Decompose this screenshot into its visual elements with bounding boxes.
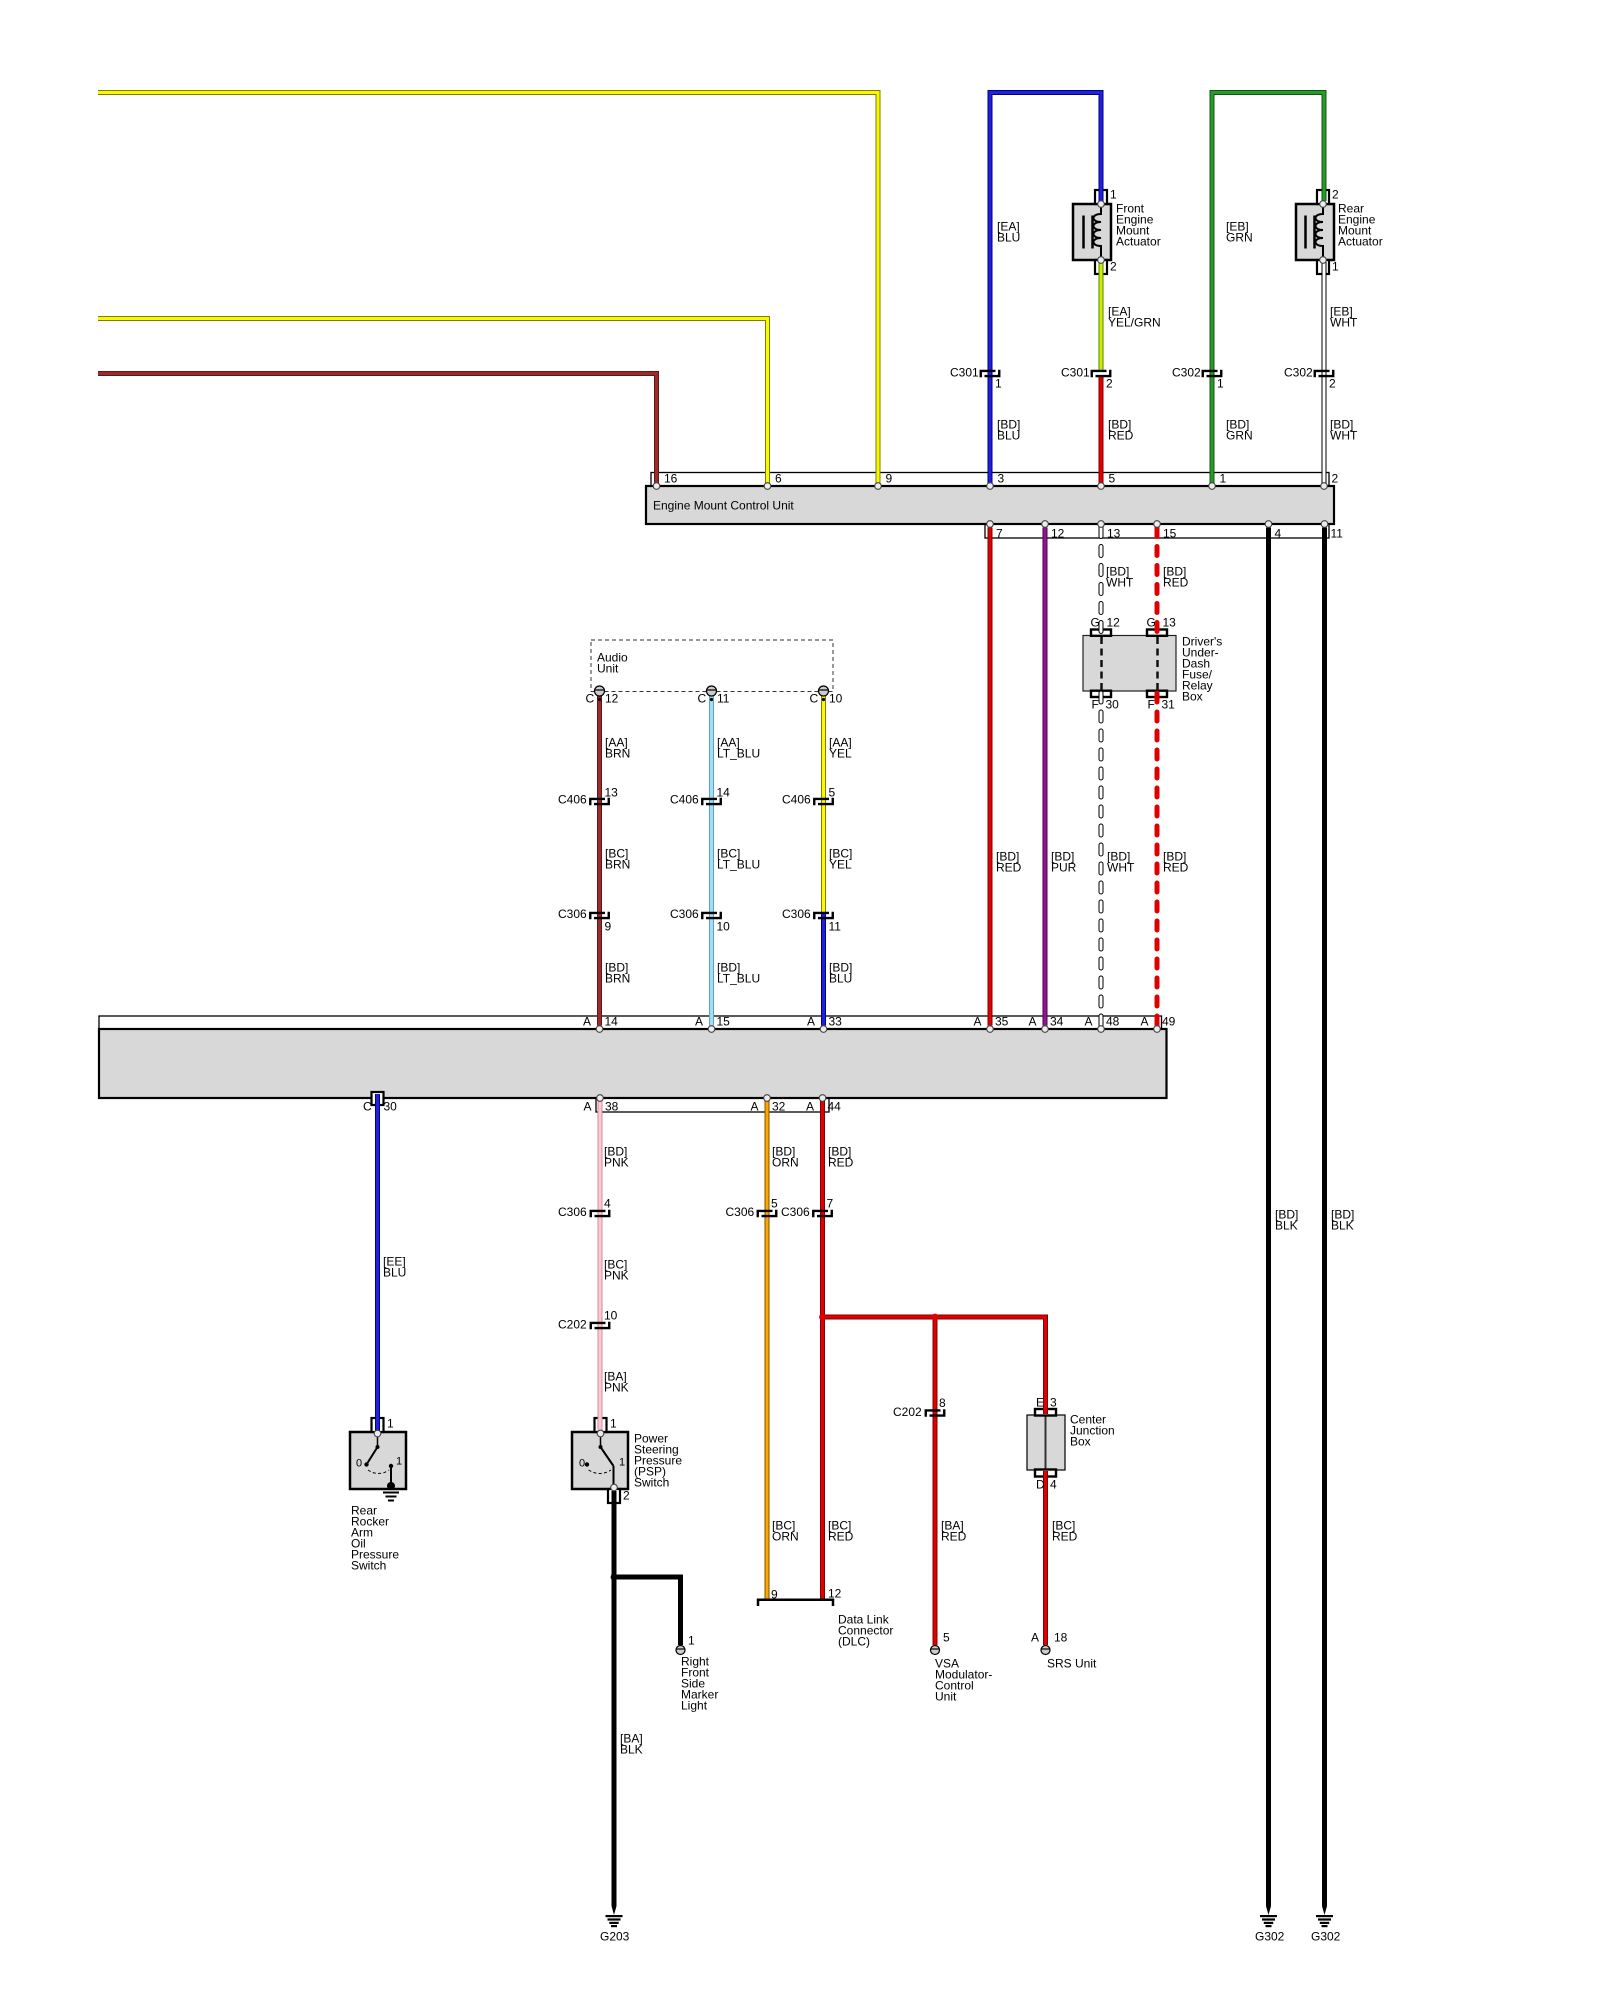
svg-text:Box: Box [1182,690,1203,704]
svg-text:C302: C302 [1172,366,1201,380]
svg-text:10: 10 [829,692,843,706]
front actuator terminal 2 [1095,260,1107,274]
connector C306 pin 9 [590,913,605,919]
connector C306 pin 11 [814,913,829,919]
svg-text:Unit: Unit [597,662,619,676]
rear engine mount actuator box [1296,204,1334,260]
svg-text:A: A [806,1100,814,1114]
wire [BC] RED from D4 to SRS unit [1043,1471,1048,1645]
main control unit box [99,1029,1167,1098]
VSA modulator-control unit terminal 5 [931,1646,940,1655]
svg-text:2: 2 [623,1489,630,1503]
audio unit pin terminal x=823.5 [819,686,829,696]
svg-text:G302: G302 [1311,1930,1341,1944]
wire [EB] WHT / [BD] WHT from rear actuator pin 1 to EMCU pin 2 [1322,262,1327,483]
audio unit pin terminal x=711.5 [707,686,717,696]
svg-text:38: 38 [605,1100,619,1114]
wire [BD] BLU to A33 [821,913,826,1026]
wire [BA] BLK from PSP pin 2 to G203 [612,1491,617,1906]
power steering pressure switch box [572,1432,628,1489]
svg-text:D: D [1036,1478,1045,1492]
svg-text:3: 3 [998,472,1005,486]
svg-text:13: 13 [1163,616,1177,630]
svg-text:0: 0 [356,1458,362,1470]
svg-text:30: 30 [384,1100,398,1114]
svg-text:A: A [751,1100,759,1114]
fuse box terminal F30 [1091,691,1111,697]
svg-text:ORN: ORN [772,1156,799,1170]
svg-text:7: 7 [827,1197,834,1211]
svg-text:E: E [1036,1396,1044,1410]
svg-text:C406: C406 [558,793,587,807]
svg-text:WHT: WHT [1106,576,1134,590]
svg-text:9: 9 [605,920,612,934]
dashed wire [BD] RED from F31 to A49 [1155,693,1160,1026]
front actuator terminal 1 [1095,190,1107,204]
svg-text:13: 13 [605,786,619,800]
svg-text:PNK: PNK [604,1269,629,1283]
svg-text:BLK: BLK [1331,1219,1354,1233]
rear actuator terminal 1 [1317,260,1329,274]
EMCU bottom pin circle x=1268.5 [1265,521,1272,528]
wire [BD]/[BC]/[BA] PNK from A38 to PSP switch [598,1100,603,1431]
svg-text:C306: C306 [726,1205,755,1219]
fuse box terminal G13 [1147,630,1167,636]
dashed wire inside fuse box G12-F30 [1100,637,1103,690]
svg-text:GRN: GRN [1226,231,1253,245]
svg-text:15: 15 [1163,527,1177,541]
junction dot red at A44 branch [819,1314,826,1321]
dashed wire [BD] WHT from F30 to A48 [1099,693,1104,1026]
EMCU top pin circle x=1101 [1098,483,1105,490]
rear actuator top circle [1320,201,1327,208]
svg-text:15: 15 [717,1015,731,1029]
svg-text:BLU: BLU [829,972,852,986]
svg-text:RED: RED [1163,576,1189,590]
svg-text:A: A [584,1100,592,1114]
svg-text:6: 6 [775,472,782,486]
EMCU top pin circle x=1324 [1321,483,1328,490]
svg-text:GRN: GRN [1226,429,1253,443]
svg-text:PNK: PNK [604,1381,629,1395]
svg-text:A: A [695,1015,703,1029]
svg-text:C: C [586,692,595,706]
svg-text:SRS Unit: SRS Unit [1047,1657,1097,1671]
rear actuator coil [1316,204,1324,260]
svg-text:Switch: Switch [634,1476,669,1490]
svg-text:1: 1 [610,1417,617,1431]
EMCU top pin circle x=990 [987,483,994,490]
svg-text:1: 1 [1220,472,1227,486]
audio unit pin terminal x=599.5 [595,686,605,696]
PSP switch lever [599,1445,603,1449]
svg-text:C406: C406 [670,793,699,807]
svg-text:Box: Box [1070,1435,1091,1449]
svg-text:5: 5 [1109,472,1116,486]
SRS unit terminal A18 [1041,1646,1050,1655]
wire yellow to EMCU pin 9 [98,93,878,484]
wire black branch to right front side marker light [614,1577,681,1645]
EMCU top pin circle x=767.5 [764,483,771,490]
svg-text:1: 1 [995,377,1002,391]
front actuator coil [1094,204,1102,260]
wire [EB] GRN / [BD] GRN from EMCU pin 1 to rear actuator pin 2 [1212,93,1324,484]
svg-text:BLU: BLU [383,1266,406,1280]
svg-text:BLK: BLK [620,1743,643,1757]
EMCU bottom pin circle x=1157 [1154,521,1161,528]
engine mount control unit top pin bar [651,473,1329,487]
svg-text:RED: RED [1052,1530,1078,1544]
front actuator top circle [1098,201,1105,208]
svg-text:1: 1 [619,1457,625,1469]
svg-text:12: 12 [1107,616,1121,630]
PSP switch terminal 2 [608,1489,620,1503]
center junction box terminal D4 [1035,1470,1056,1477]
wire [AA]/[BC]/[BD] LT_BLU from audio C11 to A15 [709,695,714,1026]
svg-text:C306: C306 [781,1205,810,1219]
svg-text:YEL/GRN: YEL/GRN [1108,316,1161,330]
svg-text:C202: C202 [893,1405,922,1419]
svg-text:33: 33 [829,1015,843,1029]
svg-text:F: F [1092,698,1099,712]
main unit bottom pin circle x=767 [764,1095,771,1102]
svg-text:PUR: PUR [1051,861,1077,875]
wire [BD]/[BC] ORN from A32 to DLC pin 9 [765,1100,770,1599]
svg-text:32: 32 [772,1100,786,1114]
svg-text:2: 2 [1332,188,1339,202]
svg-text:4: 4 [1050,1478,1057,1492]
svg-text:2: 2 [1329,377,1336,391]
svg-text:5: 5 [943,1631,950,1645]
svg-text:RED: RED [996,861,1022,875]
EMCU top pin circle x=1212 [1209,483,1216,490]
wire [BD] RED from EMCU pin 7 to A35 [988,528,993,1026]
dashed wire [BD] RED from EMCU pin 15 to G13 [1155,528,1160,635]
svg-text:BLU: BLU [997,429,1020,443]
svg-text:LT_BLU: LT_BLU [717,747,760,761]
svg-text:49: 49 [1162,1015,1176,1029]
svg-text:14: 14 [605,1015,619,1029]
svg-text:G: G [1147,616,1156,630]
main unit top pin circle x=990 [987,1026,994,1033]
svg-text:18: 18 [1054,1631,1068,1645]
svg-text:BRN: BRN [605,972,630,986]
svg-text:1: 1 [1217,377,1224,391]
svg-text:BLU: BLU [997,231,1020,245]
svg-text:12: 12 [828,1587,842,1601]
EMCU top pin circle x=656.5 [653,483,660,490]
svg-text:30: 30 [1106,698,1120,712]
svg-text:RED: RED [828,1530,854,1544]
svg-text:44: 44 [828,1100,842,1114]
connector C406 pin 13 [590,799,605,805]
rear actuator core bars [1304,216,1307,249]
wire [BD] BLK from EMCU pin 4 to G302 [1266,528,1271,1907]
svg-text:Switch: Switch [351,1559,386,1573]
PSP switch pin 2 circle [611,1484,618,1491]
svg-text:WHT: WHT [1330,316,1358,330]
svg-text:8: 8 [939,1396,946,1410]
svg-text:F: F [1148,698,1155,712]
svg-text:2: 2 [1106,377,1113,391]
EMCU bottom pin circle x=1324.5 [1321,521,1328,528]
wire [BA] RED branch to C202 and VSA [823,1317,936,1645]
wire [BD]/[BC] RED from A44 to DLC pin 12 [820,1100,825,1599]
svg-text:C202: C202 [558,1318,587,1332]
rear actuator terminal 2 [1317,190,1329,204]
main unit top pin circle x=823.5 [820,1026,827,1033]
wire [EE] BLU from C30 to rear rocker switch [375,1094,380,1431]
svg-text:BRN: BRN [605,858,630,872]
connector C302 pin 2 [1315,371,1330,377]
engine mount control unit box [646,486,1334,524]
svg-text:(DLC): (DLC) [838,1635,870,1649]
svg-text:5: 5 [771,1197,778,1211]
connector C30 terminal [372,1092,384,1105]
svg-text:C406: C406 [782,793,811,807]
svg-text:4: 4 [604,1197,611,1211]
connector C306 pin 10 [702,913,717,919]
svg-text:RED: RED [941,1530,967,1544]
engine mount control unit bottom pin bar [985,524,1329,538]
front actuator bottom circle [1098,257,1105,264]
svg-text:1: 1 [1110,188,1117,202]
svg-text:35: 35 [995,1015,1009,1029]
svg-text:C: C [810,692,819,706]
main unit bottom pin circle x=822.5 [819,1095,826,1102]
center junction box [1027,1415,1065,1470]
connector C306 pin 5 [758,1211,773,1217]
data link connector DLC bracket [758,1600,833,1606]
svg-text:C306: C306 [558,1205,587,1219]
svg-text:4: 4 [1275,527,1282,541]
svg-text:LT_BLU: LT_BLU [717,972,760,986]
svg-text:9: 9 [886,472,893,486]
svg-text:3: 3 [1050,1396,1057,1410]
junction dot black at marker light branch [611,1574,618,1581]
dashed wire inside fuse box G13-F31 [1156,637,1159,690]
svg-text:A: A [807,1015,815,1029]
rear rocker switch pin circle [374,1430,381,1437]
wire [BD] BLK from EMCU pin 11 to G302 [1322,528,1327,1907]
svg-text:48: 48 [1106,1015,1120,1029]
PSP switch pin 1 circle [597,1430,604,1437]
main unit top pin circle x=711.5 [708,1026,715,1033]
audio unit dashed box [591,640,833,692]
svg-text:12: 12 [1051,527,1065,541]
svg-text:0: 0 [579,1458,585,1470]
svg-text:WHT: WHT [1330,429,1358,443]
svg-text:A: A [583,1015,591,1029]
EMCU top pin circle x=878 [875,483,882,490]
svg-text:9: 9 [771,1588,778,1602]
rear actuator bottom circle [1320,257,1327,264]
svg-text:16: 16 [664,472,678,486]
junction dot red at VSA branch [932,1314,939,1321]
EMCU bottom pin circle x=1101 [1098,521,1105,528]
front engine mount actuator box [1073,204,1111,260]
rear rocker switch lever [376,1445,380,1449]
svg-text:11: 11 [1331,527,1344,541]
connector C306 pin 4 [591,1211,606,1217]
main unit top pin circle x=1157 [1154,1026,1161,1033]
svg-text:C306: C306 [782,907,811,921]
svg-text:5: 5 [829,786,836,800]
svg-text:RED: RED [828,1156,854,1170]
svg-text:Engine Mount Control Unit: Engine Mount Control Unit [653,499,794,513]
svg-text:C301: C301 [1061,366,1090,380]
ground G302 right [1322,1906,1327,1915]
svg-text:13: 13 [1107,527,1121,541]
svg-text:11: 11 [717,692,730,706]
rear rocker switch internal ground [387,1482,395,1490]
front actuator core bars [1082,216,1085,249]
svg-text:LT_BLU: LT_BLU [717,858,760,872]
connector C302 pin 1 [1203,371,1218,377]
svg-text:YEL: YEL [829,747,852,761]
svg-text:A: A [1029,1015,1037,1029]
svg-text:2: 2 [1110,260,1117,274]
wire [BD] PUR from EMCU pin 12 to A34 [1043,528,1048,1026]
rear rocker switch terminal 1 [372,1418,384,1432]
wire [AA]/[BC] YEL from audio C10 [821,695,826,914]
ground G203 [612,1906,617,1915]
svg-text:C301: C301 [950,366,979,380]
svg-text:A: A [1141,1015,1149,1029]
main control unit bottom pin bar [596,1098,829,1112]
connector C301 pin 2 [1092,371,1107,377]
wire [EA] YEL/GRN from front actuator pin 2 [1099,262,1104,371]
svg-text:Actuator: Actuator [1116,235,1161,249]
main unit bottom pin circle x=600 [597,1095,604,1102]
svg-text:BLK: BLK [1275,1219,1298,1233]
svg-text:1: 1 [387,1417,394,1431]
svg-text:BRN: BRN [605,747,630,761]
svg-text:C306: C306 [558,907,587,921]
svg-text:G302: G302 [1255,1930,1285,1944]
wire [BD] RED to EMCU pin 5 [1099,377,1104,483]
EMCU bottom pin circle x=1045 [1042,521,1049,528]
EMCU bottom pin circle x=990 [987,521,994,528]
svg-text:A: A [974,1015,982,1029]
svg-text:Actuator: Actuator [1338,235,1383,249]
svg-text:10: 10 [604,1309,618,1323]
connector C202 pin 8 [926,1410,941,1416]
svg-text:31: 31 [1162,698,1176,712]
connector C202 pin 10 [591,1323,606,1329]
svg-text:Unit: Unit [935,1690,957,1704]
svg-text:C: C [698,692,707,706]
main unit top pin circle x=599.5 [596,1026,603,1033]
connector C406 pin 5 [814,799,829,805]
svg-text:14: 14 [717,786,731,800]
right front side marker light terminal 1 [676,1646,685,1655]
svg-text:WHT: WHT [1107,861,1135,875]
svg-text:C: C [363,1100,372,1114]
svg-text:10: 10 [717,920,731,934]
connector C301 pin 1 [981,371,996,377]
driver's under-dash fuse/relay box [1083,636,1176,692]
svg-text:G: G [1091,616,1100,630]
svg-text:1: 1 [396,1456,402,1468]
svg-text:A: A [1085,1015,1093,1029]
dashed wire [BD] WHT from EMCU pin 13 to G12 [1099,528,1104,635]
svg-text:C302: C302 [1284,366,1313,380]
PSP switch terminal 1 [595,1418,607,1432]
svg-text:PNK: PNK [604,1156,629,1170]
connector C406 pin 14 [702,799,717,805]
main control unit top pin bar [99,1016,1162,1029]
svg-text:A: A [1031,1631,1039,1645]
ground G302 left [1266,1906,1271,1915]
svg-text:1: 1 [688,1634,695,1648]
fuse box terminal F31 [1147,691,1167,697]
wire [EA] BLU / [BD] BLU from EMCU pin 3 to front actuator pin 1 [990,93,1101,484]
wire [BC] RED branch to center junction box E3 [935,1317,1046,1414]
main unit top pin circle x=1101 [1098,1026,1105,1033]
svg-text:ORN: ORN [772,1530,799,1544]
svg-text:RED: RED [1108,429,1134,443]
fuse box terminal G12 [1091,630,1111,636]
wire [AA]/[BC]/[BD] BRN from audio C12 to A14 [597,695,602,1026]
rear rocker arm oil pressure switch box [350,1432,406,1489]
svg-text:11: 11 [829,920,842,934]
svg-text:YEL: YEL [829,858,852,872]
center junction box terminal E3 [1035,1409,1056,1416]
svg-text:1: 1 [1332,260,1339,274]
svg-text:C306: C306 [670,907,699,921]
svg-text:G203: G203 [600,1930,630,1944]
svg-text:RED: RED [1163,861,1189,875]
main unit top pin circle x=1045 [1042,1026,1049,1033]
svg-text:Light: Light [681,1699,708,1713]
connector C306 pin 7 [813,1211,828,1217]
wire maroon to EMCU pin 16 [98,374,657,484]
svg-text:2: 2 [1332,472,1339,486]
svg-text:34: 34 [1050,1015,1064,1029]
wire yellow to EMCU pin 6 [98,319,768,484]
svg-text:12: 12 [605,692,619,706]
svg-text:7: 7 [996,527,1003,541]
